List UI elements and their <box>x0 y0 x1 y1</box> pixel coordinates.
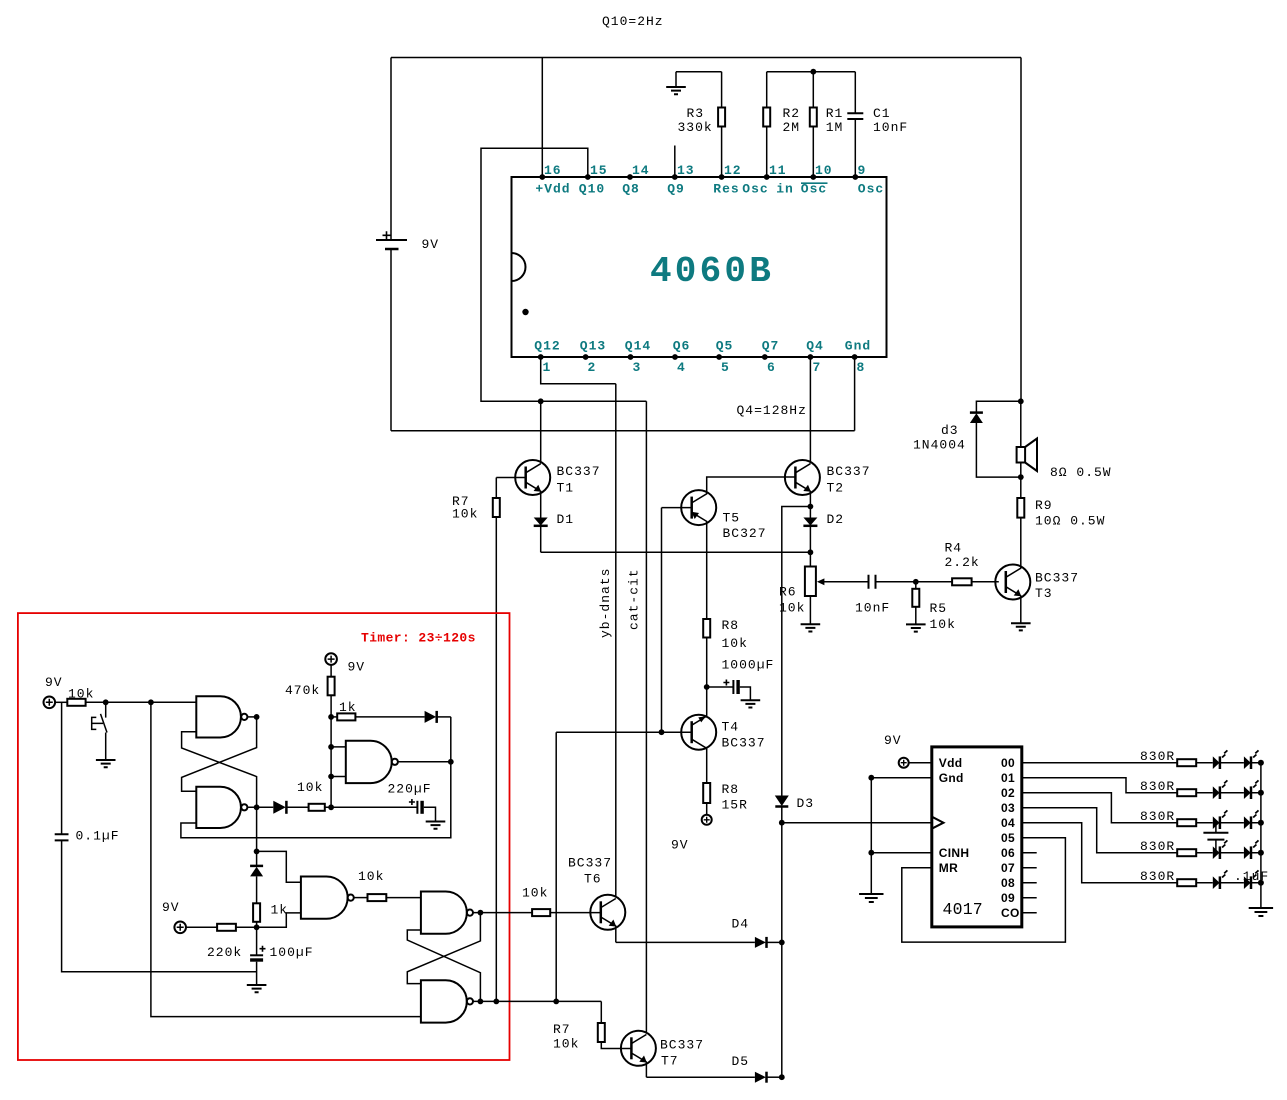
speaker 8ohm 0.5W <box>1017 401 1112 480</box>
junction 1000uF node <box>704 684 710 690</box>
svg-text:07: 07 <box>1001 861 1015 875</box>
svg-text:0.1µF: 0.1µF <box>76 829 120 844</box>
NAND gate C (monostable) <box>331 741 451 797</box>
wire clock line D3 to 4017 <box>782 822 932 824</box>
junction gate E output <box>478 910 484 916</box>
wire node to gate D lower input <box>257 913 301 927</box>
potentiometer R6 10k <box>779 552 869 624</box>
svg-text:7: 7 <box>813 360 822 375</box>
junction T2 emitter node <box>808 504 814 510</box>
svg-text:2.2k: 2.2k <box>945 555 980 570</box>
ground (4017) <box>859 894 883 902</box>
svg-text:R8: R8 <box>722 618 740 633</box>
U1 bottom pin dots <box>538 354 858 360</box>
svg-text:R8: R8 <box>722 782 740 797</box>
LED row 2 #1 <box>1213 780 1228 799</box>
svg-text:830R: 830R <box>1140 839 1175 854</box>
svg-text:CO: CO <box>1001 906 1020 920</box>
svg-text:D4: D4 <box>732 917 750 932</box>
wire oscillator RC top rail <box>767 71 856 73</box>
wire ground rail <box>391 430 855 432</box>
junction NAND2 input A <box>328 744 334 750</box>
svg-text:Res: Res <box>713 182 739 197</box>
svg-text:Q9: Q9 <box>667 182 685 197</box>
wire gate B output down <box>256 807 258 851</box>
junction 220k/100uF node <box>254 924 260 930</box>
svg-text:8: 8 <box>857 360 866 375</box>
wire RC feedback to gate B lower input <box>181 717 451 838</box>
diode D4 <box>732 917 782 948</box>
junction 1k/470k node <box>328 714 334 720</box>
junction LED rail <box>1258 820 1264 826</box>
svg-text:Q10: Q10 <box>579 182 605 197</box>
junction gate F output <box>478 999 484 1005</box>
wire LED cathode rail <box>1260 763 1262 908</box>
svg-text:cat-cit: cat-cit <box>627 568 642 630</box>
svg-text:R5: R5 <box>930 601 948 616</box>
transistor T6 BC337 <box>568 856 625 943</box>
svg-text:R1: R1 <box>826 106 844 121</box>
ground (100uF / 0.1uF) <box>247 985 267 992</box>
svg-text:2M: 2M <box>783 120 801 135</box>
svg-text:1M: 1M <box>826 120 844 135</box>
transistor T2 BC337 <box>785 460 871 507</box>
junction D5 cathode <box>779 1074 785 1080</box>
capacitor 0.1uF <box>55 702 257 971</box>
transistor T4 BC337 <box>556 687 765 783</box>
svg-text:1k: 1k <box>271 903 289 918</box>
capacitor 100uF <box>250 927 313 985</box>
svg-text:R4: R4 <box>945 541 963 556</box>
svg-text:10k: 10k <box>522 886 548 901</box>
resistor 830R (row 3) <box>1140 809 1213 826</box>
junction R7 tap <box>493 999 499 1005</box>
svg-text:T2: T2 <box>827 481 845 496</box>
wire latch1 cross coupling A to B <box>182 717 257 791</box>
junction delay node <box>254 849 260 855</box>
junction speaker top <box>1018 398 1024 404</box>
transistor T3 BC337 <box>995 518 1079 624</box>
svg-text:830R: 830R <box>1140 809 1175 824</box>
svg-text:in: in <box>776 182 794 197</box>
svg-text:Q5: Q5 <box>716 339 734 354</box>
battery 9V <box>376 231 439 252</box>
svg-text:10k: 10k <box>930 617 956 632</box>
resistor 10k (gate D output) <box>358 869 421 901</box>
ground (220uF) <box>426 822 446 829</box>
wire ground to R3 top <box>676 71 722 73</box>
svg-text:R2: R2 <box>783 106 801 121</box>
svg-text:9V: 9V <box>884 733 902 748</box>
capacitor .1uF (across LED rows) <box>1203 823 1269 884</box>
wire stand-by line <box>615 384 617 896</box>
svg-text:4017: 4017 <box>943 900 983 919</box>
svg-text:16: 16 <box>544 163 562 178</box>
resistor 830R (row 1) <box>1140 749 1213 766</box>
resistor R5 10k <box>912 582 956 632</box>
svg-text:470k: 470k <box>285 683 320 698</box>
capacitor 1000uF <box>707 658 775 701</box>
junction gate B output <box>254 804 260 810</box>
svg-text:Osc: Osc <box>742 182 768 197</box>
junction LED rail <box>1258 880 1264 886</box>
terminal +9V (4017 Vdd) <box>884 733 932 768</box>
resistor R7 10k (T1 base) <box>452 478 500 1002</box>
svg-text:10k: 10k <box>297 780 323 795</box>
U1 top pin numbers 16 15 14 13 12 11 10 9 <box>544 163 866 178</box>
wire tic-tac line <box>645 401 647 1032</box>
wire LED row link <box>1220 762 1261 764</box>
svg-text:09: 09 <box>1001 891 1015 905</box>
wire latch2 cross coupling E to F <box>407 913 480 984</box>
NAND gate E (latch 2) <box>421 892 532 934</box>
svg-text:10: 10 <box>815 163 833 178</box>
IC U4 4017 body <box>932 747 1022 927</box>
svg-text:.1uF: .1uF <box>1234 869 1269 884</box>
resistor 10k (T6 base) <box>522 886 601 917</box>
svg-text:Q6: Q6 <box>673 339 691 354</box>
diode (latch B output) <box>273 801 308 814</box>
wire O1 feed LED row2 <box>1022 778 1177 793</box>
svg-text:1: 1 <box>543 360 552 375</box>
junction R5 node <box>913 579 919 585</box>
NAND gate F (latch 2) <box>421 980 601 1022</box>
LED row 4 #1 <box>1213 840 1228 859</box>
junction LED rail <box>1258 850 1264 856</box>
transistor T5 BC327 <box>662 477 796 619</box>
wire right supply drop <box>1020 58 1022 402</box>
junction Gnd <box>868 775 874 781</box>
ground (LED rail) <box>1249 908 1273 916</box>
wire O3 feed LED row4 <box>1022 808 1177 853</box>
ground (R5) <box>906 624 926 631</box>
ground (1000uF) <box>741 700 761 707</box>
ground (push button) <box>96 760 116 767</box>
wire pin 7 Q4 drop to T2 <box>809 357 811 464</box>
timer enclosure box <box>18 613 510 1060</box>
wire stand-by/tic-tac rail <box>541 551 811 553</box>
wire pin 1 Q12 route <box>541 357 616 384</box>
svg-text:BC337: BC337 <box>568 856 612 871</box>
svg-text:330k: 330k <box>678 120 713 135</box>
svg-text:MR: MR <box>939 861 958 875</box>
wire LED row link <box>1220 792 1261 794</box>
svg-text:R7: R7 <box>553 1022 571 1037</box>
svg-text:Gnd: Gnd <box>939 771 964 785</box>
svg-text:15R: 15R <box>722 798 748 813</box>
svg-text:9V: 9V <box>162 900 180 915</box>
ground (T3 emitter) <box>1011 623 1031 630</box>
svg-text:830R: 830R <box>1140 779 1175 794</box>
junction T5 base joins T4 base <box>659 729 665 735</box>
svg-text:Q4: Q4 <box>806 339 824 354</box>
svg-text:C1: C1 <box>873 106 891 121</box>
svg-text:14: 14 <box>632 163 650 178</box>
U1 bottom pin names <box>534 339 871 354</box>
terminal 9V (220k) <box>162 900 186 933</box>
svg-text:15: 15 <box>590 163 608 178</box>
junction D4 cathode <box>779 940 785 946</box>
transistor T1 BC337 <box>496 460 600 518</box>
LED row 4 #2 <box>1244 840 1259 859</box>
terminal 9V (timer input) <box>44 675 63 708</box>
resistor 830R (row 5) <box>1140 869 1213 886</box>
svg-text:10k: 10k <box>553 1037 579 1052</box>
push button (start) <box>92 702 107 760</box>
svg-text:T3: T3 <box>1035 586 1053 601</box>
wire +Vdd drop to pin 16 <box>541 58 543 178</box>
wire T6 emitter to D4 <box>616 941 755 943</box>
U1 top pin names <box>535 182 884 197</box>
wire gate F lower input long feedback <box>151 702 421 1016</box>
LED row 5 #1 <box>1213 870 1228 889</box>
terminal 9V (470k) <box>325 653 365 674</box>
ground (R6) <box>801 624 821 631</box>
svg-text:D1: D1 <box>557 512 575 527</box>
svg-text:Vdd: Vdd <box>939 756 963 770</box>
LED row 1 #2 <box>1244 750 1259 769</box>
wire LED row link <box>1220 882 1261 884</box>
svg-text:12: 12 <box>724 163 742 178</box>
capacitor 10nF (audio coupling) <box>855 575 916 616</box>
svg-text:CINH: CINH <box>939 846 970 860</box>
NAND gate D (trigger) <box>301 877 368 919</box>
svg-text:10k: 10k <box>68 687 94 702</box>
svg-text:BC327: BC327 <box>723 526 767 541</box>
NAND gate B (latch 1) <box>196 787 273 828</box>
svg-text:R3: R3 <box>687 106 705 121</box>
resistor R8 10k (T5 emitter) <box>703 618 748 687</box>
diode d3 1N4004 <box>913 401 1021 477</box>
resistor 470k <box>285 665 335 698</box>
svg-text:Q8: Q8 <box>622 182 640 197</box>
svg-text:T4: T4 <box>722 720 740 735</box>
svg-text:10k: 10k <box>779 601 805 616</box>
resistor 830R (row 2) <box>1140 779 1213 796</box>
wire T2 emitter node to D3 branch <box>782 507 811 797</box>
junction speaker bottom <box>1018 474 1024 480</box>
LED row 5 #2 <box>1244 870 1259 889</box>
wire battery positive riser <box>390 58 392 241</box>
wire top supply rail <box>391 57 1021 59</box>
NAND gate A (latch 1) <box>196 696 256 737</box>
resistor R7 10k (T7 base) <box>553 1001 631 1051</box>
diode D3 <box>775 796 814 1078</box>
wire O2 feed LED row3 <box>1022 793 1177 823</box>
resistor 830R (row 4) <box>1140 839 1213 856</box>
svg-text:Q13: Q13 <box>580 339 606 354</box>
junction LED rail <box>1258 790 1264 796</box>
svg-text:01: 01 <box>1001 771 1015 785</box>
resistor 1k (delay) <box>253 903 288 928</box>
svg-text:BC337: BC337 <box>557 464 601 479</box>
svg-text:Q14: Q14 <box>625 339 651 354</box>
svg-text:Gnd: Gnd <box>845 339 871 354</box>
svg-text:Osc: Osc <box>858 182 884 197</box>
svg-text:3: 3 <box>633 360 642 375</box>
svg-text:08: 08 <box>1001 876 1015 890</box>
svg-text:04: 04 <box>1001 816 1015 830</box>
wire delay node to gate D upper input <box>257 851 301 882</box>
wire O6-O9,CO stubs <box>1022 853 1037 913</box>
LED row 3 #2 <box>1244 810 1259 829</box>
wire T4 base left drop to timer output rail <box>555 732 557 1001</box>
svg-text:5: 5 <box>721 360 730 375</box>
junction D2 cathode on rail <box>808 549 814 555</box>
wire battery negative to ground rail <box>390 249 392 431</box>
wire pin 15 Q10 route <box>481 148 646 401</box>
IC U1 4060B body <box>512 177 887 357</box>
svg-text:D5: D5 <box>732 1054 750 1069</box>
wire latch1 cross coupling B to A <box>182 732 257 808</box>
svg-text:T6: T6 <box>584 872 602 887</box>
svg-text:2: 2 <box>588 360 597 375</box>
wire LED row link <box>1220 852 1261 854</box>
wire T5 base drop to T4 base <box>661 508 663 733</box>
svg-text:BC337: BC337 <box>660 1038 704 1053</box>
terminal +9V (T4 emitter) <box>671 815 712 853</box>
svg-text:D3: D3 <box>797 796 815 811</box>
svg-text:yb-dnats: yb-dnats <box>598 568 613 638</box>
diode (delay, pointing up) <box>250 851 263 903</box>
resistor R8 15R (T4 emitter) <box>703 782 748 814</box>
svg-text:d3: d3 <box>941 423 959 438</box>
junction gate A output <box>254 714 260 720</box>
junction latch input node <box>148 699 154 705</box>
svg-text:830R: 830R <box>1140 869 1175 884</box>
LED row 3 #1 <box>1213 810 1228 829</box>
svg-text:T1: T1 <box>557 481 575 496</box>
svg-text:BC337: BC337 <box>722 736 766 751</box>
svg-text:4060B: 4060B <box>650 251 774 292</box>
svg-text:1000µF: 1000µF <box>722 658 775 673</box>
svg-text:13: 13 <box>677 163 695 178</box>
junction button node <box>103 699 109 705</box>
svg-text:T7: T7 <box>661 1054 679 1069</box>
ground (oscillator reset network) <box>666 72 686 95</box>
svg-text:10nF: 10nF <box>873 120 908 135</box>
U1 top pin dots <box>539 174 858 180</box>
junction T4 base tap <box>553 999 559 1005</box>
svg-text:830R: 830R <box>1140 749 1175 764</box>
diode D5 <box>732 1054 782 1083</box>
svg-text:D2: D2 <box>827 512 845 527</box>
wire 4017 Gnd net <box>871 778 932 894</box>
svg-text:03: 03 <box>1001 801 1015 815</box>
transistor T7 BC337 <box>621 1031 704 1077</box>
svg-text:Q7: Q7 <box>762 339 780 354</box>
svg-text:BC337: BC337 <box>827 464 871 479</box>
wire pin 8 Gnd drop <box>854 357 856 431</box>
svg-text:Q4=128Hz: Q4=128Hz <box>737 403 807 418</box>
junction <box>810 69 816 75</box>
svg-text:8Ω 0.5W: 8Ω 0.5W <box>1050 465 1112 480</box>
svg-text:220k: 220k <box>207 945 242 960</box>
capacitor 220uF <box>409 799 436 822</box>
wire O0 feed LED row1 <box>1022 762 1177 764</box>
diode (1k feedback) <box>425 711 451 723</box>
svg-text:Q12: Q12 <box>534 339 560 354</box>
wire CINH tie <box>871 852 932 854</box>
wire LED row link <box>1220 822 1261 824</box>
diode D1 <box>534 512 574 552</box>
resistor R3 330k <box>678 72 726 177</box>
junction <box>538 398 544 404</box>
capacitor C1 10nF <box>847 72 908 177</box>
wire 470k chain vertical <box>330 677 332 808</box>
wire T1 collector drop <box>540 401 542 463</box>
resistor R4 2.2k <box>916 541 999 586</box>
svg-text:9V: 9V <box>348 660 366 675</box>
svg-text:R6: R6 <box>779 585 797 600</box>
wire O4 feed LED row5 <box>1022 823 1177 883</box>
junction diode/gateC output <box>448 759 454 765</box>
resistor R2 2M <box>763 72 800 177</box>
resistor 1k (with diode) <box>331 700 425 720</box>
svg-text:10nF: 10nF <box>855 601 890 616</box>
svg-text:1k: 1k <box>339 700 357 715</box>
svg-text:00: 00 <box>1001 756 1015 770</box>
wire pin 13 stub <box>674 146 676 178</box>
svg-text:T5: T5 <box>723 511 741 526</box>
junction clock node <box>779 820 785 826</box>
LED row 1 #1 <box>1213 750 1228 769</box>
resistor 10k (timer input) <box>55 687 196 706</box>
svg-text:02: 02 <box>1001 786 1015 800</box>
svg-text:BC337: BC337 <box>1035 571 1079 586</box>
wire latch2 cross coupling F to E <box>407 930 480 1001</box>
svg-text:10k: 10k <box>452 507 478 522</box>
svg-text:10Ω 0.5W: 10Ω 0.5W <box>1035 514 1105 529</box>
junction LED rail <box>1258 760 1264 766</box>
junction 10k/220uF node <box>328 804 334 810</box>
wire T7 emitter to D5 <box>646 1076 755 1078</box>
junction CINH <box>868 850 874 856</box>
resistor R1 1M <box>810 72 844 177</box>
svg-text:05: 05 <box>1001 831 1015 845</box>
junction NAND2 input B <box>328 774 334 780</box>
svg-text:9: 9 <box>858 163 867 178</box>
svg-text:1N4004: 1N4004 <box>913 438 966 453</box>
svg-text:9V: 9V <box>45 675 63 690</box>
U1 bottom pin numbers 1-8 <box>543 360 866 375</box>
svg-text:10k: 10k <box>358 869 384 884</box>
svg-text:10k: 10k <box>722 636 748 651</box>
svg-text:R9: R9 <box>1035 498 1053 513</box>
wire MR to O5 loop <box>902 838 1066 942</box>
svg-text:Timer: 23÷120s: Timer: 23÷120s <box>361 631 476 646</box>
svg-text:6: 6 <box>767 360 776 375</box>
svg-text:Q10=2Hz: Q10=2Hz <box>602 14 664 29</box>
svg-text:100µF: 100µF <box>270 945 314 960</box>
svg-text:4: 4 <box>677 360 686 375</box>
svg-text:9V: 9V <box>671 838 689 853</box>
diode D2 <box>803 507 844 553</box>
svg-text:06: 06 <box>1001 846 1015 860</box>
svg-text:9V: 9V <box>422 237 440 252</box>
svg-text:+Vdd: +Vdd <box>535 182 570 197</box>
resistor 10k (monostable) <box>297 780 417 811</box>
LED row 2 #2 <box>1244 780 1259 799</box>
resistor R9 10ohm 0.5W <box>1017 477 1105 528</box>
svg-text:11: 11 <box>769 163 787 178</box>
svg-text:220µF: 220µF <box>388 782 432 797</box>
resistor 220k <box>186 924 257 960</box>
